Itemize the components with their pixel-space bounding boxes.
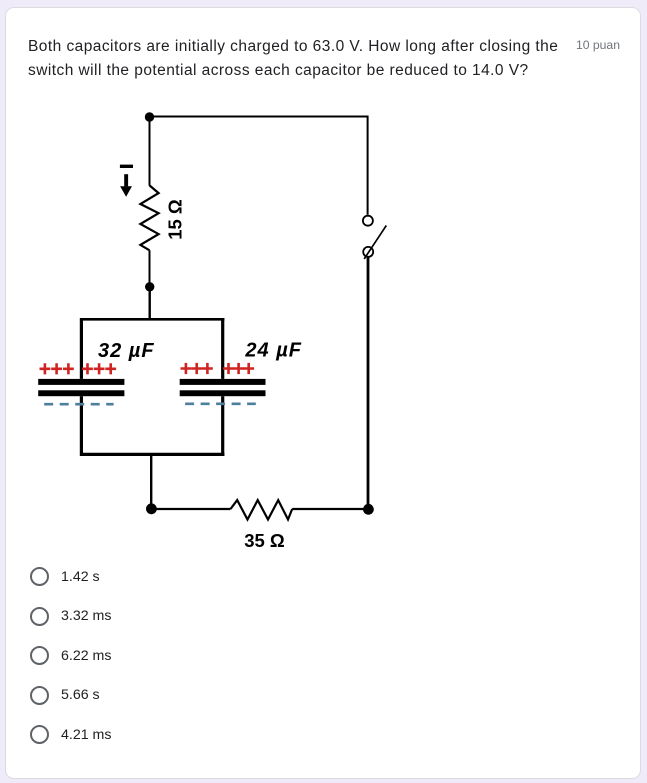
capacitor C1 32uF plates	[38, 379, 124, 396]
negative charge dashes C1	[44, 403, 113, 406]
capacitor C2 24uF plates	[180, 379, 266, 396]
wire node to box top	[148, 287, 150, 320]
wire R1 to middle node	[149, 250, 151, 287]
wire box right edge lower	[221, 396, 224, 456]
resistor R1 15 ohm vertical zigzag	[140, 185, 158, 250]
wire box bottom edge	[80, 453, 224, 456]
wire box bottom to bottom-left node	[150, 456, 152, 509]
wire top node down to R1	[149, 117, 151, 186]
wire box left edge upper	[80, 318, 83, 379]
wire box left edge lower	[80, 396, 83, 456]
wire bottom left segment	[151, 508, 230, 510]
positive charge marks C2	[181, 363, 255, 374]
wire right vertical lower	[367, 257, 370, 509]
node bottom-right junction	[363, 504, 374, 515]
switch S1 lower contact	[363, 247, 373, 257]
svg-text:32 µF: 32 µF	[98, 340, 155, 362]
wire top horizontal	[150, 116, 368, 118]
positive charge marks C1	[40, 363, 117, 374]
svg-text:24 µF: 24 µF	[244, 340, 302, 362]
resistor R2 35 ohm horizontal zigzag	[231, 500, 293, 519]
svg-text:35 Ω: 35 Ω	[244, 530, 285, 551]
wire bottom right segment	[292, 508, 368, 510]
switch S1 upper contact	[363, 216, 373, 226]
wire box right edge upper	[221, 318, 224, 379]
switch S1 blade	[364, 226, 386, 259]
node bottom-left junction	[146, 503, 157, 514]
node top-left junction	[145, 112, 154, 121]
wire right vertical upper to switch	[367, 116, 369, 215]
svg-text:15 Ω: 15 Ω	[164, 199, 185, 240]
wire box top edge	[80, 318, 224, 321]
current arrow I	[120, 165, 133, 197]
negative charge dashes C2	[185, 402, 256, 405]
node junction above capacitor box	[145, 282, 154, 291]
